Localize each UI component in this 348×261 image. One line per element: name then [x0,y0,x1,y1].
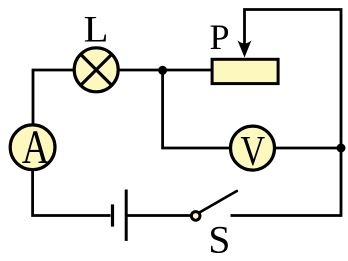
wire: switch right contact to bottom-right corner, up right side, top run, wiper stem [231,10,342,216]
rheostat P body [212,59,278,83]
node dot on right vertical wire [337,144,346,153]
svg-text:A: A [22,121,49,174]
wire: lamp left terminal to ammeter top [33,70,74,124]
junction node dot (lamp/rheostat/voltmeter branch) [158,66,167,75]
svg-text:P: P [209,17,229,57]
svg-text:V: V [241,129,266,175]
wire: lamp right terminal to rheostat left terminal [117,69,212,72]
voltmeter V circle [231,126,275,170]
wire: ammeter bottom to battery negative plate [33,170,111,216]
wire: battery positive plate to switch pivot [128,214,192,217]
wire: voltmeter right terminal to right node [274,147,341,150]
switch lever [199,191,236,213]
lamp L cross lines [81,54,112,85]
svg-text:S: S [208,217,230,261]
rheostat wiper arrowhead [238,40,252,57]
lamp L circle [74,48,118,92]
switch pivot contact circle [191,212,200,221]
svg-text:L: L [84,9,109,50]
wire: junction down to voltmeter left terminal [163,70,231,148]
battery negative plate (short) [111,204,114,226]
ammeter A circle [10,125,55,170]
battery positive plate (long) [125,190,128,241]
